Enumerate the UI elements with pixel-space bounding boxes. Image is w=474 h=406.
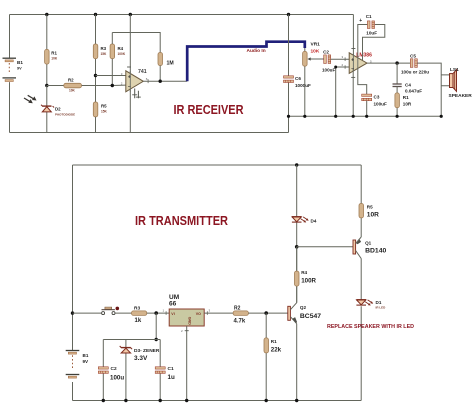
svg-text:1u: 1u (168, 374, 175, 381)
svg-text:100R: 100R (301, 278, 316, 285)
wire bottom rail (transmitter) (73, 400, 362, 402)
wire top rail (10, 14, 354, 16)
wire LM386 pin 4 to ground (351, 69, 355, 116)
node R2/R1 junction (264, 311, 268, 315)
node R4/R2 junction (111, 84, 114, 87)
node supply rail left (71, 311, 74, 314)
resistor R4 100R (295, 270, 317, 286)
battery B1 (receiver) (3, 58, 24, 81)
wire ground rail right (289, 116, 442, 132)
wire R1 column (transmitter) (265, 313, 267, 400)
resistor R1 10R (receiver) (395, 87, 412, 117)
svg-text:PHOTODIODE: PHOTODIODE (55, 113, 75, 117)
wire UM66 GND pin (181, 326, 189, 401)
svg-text:REPLACE SPEAKER WITH IR LED: REPLACE SPEAKER WITH IR LED (327, 324, 414, 330)
svg-text:R2: R2 (234, 305, 241, 311)
svg-text:IR RECEIVER: IR RECEIVER (174, 103, 244, 117)
svg-text:R2: R2 (68, 77, 74, 82)
svg-text:IR LED: IR LED (376, 306, 387, 310)
capacitor C6 1000uF (284, 76, 312, 88)
wire left edge top (9, 15, 11, 58)
node output C4 branch (395, 61, 398, 64)
svg-text:R1: R1 (403, 95, 409, 100)
svg-text:1k: 1k (135, 318, 142, 324)
wire LM386 output (367, 62, 410, 64)
node R3/R5 junction (94, 74, 97, 77)
wire LM386 pin2 to ground (336, 63, 350, 116)
wire left edge (transmitter) (72, 165, 74, 401)
svg-text:1M: 1M (167, 61, 174, 67)
battery B1 9V (transmitter) (66, 351, 89, 379)
potentiometer VR1 10K (303, 42, 324, 117)
node R1 ground (396, 115, 399, 118)
resistor R2 4.7k (233, 305, 248, 324)
svg-text:VI: VI (171, 312, 174, 316)
wire Q2 collector column (296, 247, 298, 303)
wire C6 column (288, 15, 290, 117)
wire 741 supply column (127, 15, 131, 133)
wire C1 column (transmitter) (159, 340, 161, 401)
svg-text:100u: 100u (110, 374, 124, 381)
svg-text:C2: C2 (323, 50, 329, 55)
svg-text:B1: B1 (83, 353, 89, 358)
node zener ground (124, 399, 127, 402)
resistor R1 22k (transmitter) (264, 338, 282, 353)
svg-text:LS1: LS1 (450, 67, 459, 73)
IC UM66 (169, 294, 204, 326)
svg-text:R5: R5 (101, 104, 107, 109)
svg-text:10K: 10K (51, 56, 58, 60)
svg-text:Audio In: Audio In (247, 48, 266, 54)
svg-text:+: + (351, 57, 354, 63)
node top rail R3 (94, 13, 97, 16)
svg-text:R1: R1 (51, 51, 57, 56)
resistor R2 10K (64, 77, 82, 92)
wire 741 output (143, 80, 187, 82)
wire LM386 pin 7 to C3 (358, 68, 367, 94)
resistor R5 10R (359, 204, 379, 219)
wire UM66 out to R2 (204, 309, 233, 315)
node C1 ground (159, 399, 162, 402)
svg-text:100u or 220u: 100u or 220u (401, 70, 429, 75)
node R1 ground (transmitter) (265, 399, 268, 402)
svg-text:D4: D4 (311, 218, 317, 223)
wire audio link (navy) (187, 42, 305, 81)
node speaker ground (440, 115, 443, 118)
resistor R4 100K (110, 44, 126, 59)
wire switch to R3 (115, 312, 131, 314)
wire ground rail left (10, 132, 289, 134)
svg-text:R3: R3 (134, 305, 140, 311)
svg-text:VO: VO (196, 312, 201, 316)
wire junction down to 3.3V rail (155, 313, 157, 339)
capacitor C4 0.047uF (393, 83, 423, 94)
svg-text:D1: D1 (376, 300, 382, 305)
svg-text:R3: R3 (101, 46, 107, 51)
node C3 ground (365, 115, 368, 118)
label REPLACE SPEAKER WITH IR LED (327, 324, 414, 330)
wire 3.3V rail (103, 339, 160, 341)
svg-text:C5: C5 (410, 53, 416, 58)
svg-text:22k: 22k (271, 346, 282, 353)
svg-text:+: + (128, 75, 131, 81)
wire LM386 V+ (pin 6) (351, 15, 355, 56)
svg-text:9V: 9V (83, 359, 90, 364)
wire R2 net (inverting input) (47, 84, 126, 86)
svg-text:4.7k: 4.7k (234, 319, 246, 325)
svg-text:100uF: 100uF (322, 68, 335, 73)
wire R5 to ground (95, 117, 97, 133)
wire Q2 emitter to ground (296, 324, 298, 401)
node Q2 emitter ground (295, 399, 298, 402)
resistor R5 15K (93, 102, 107, 117)
node D4 top rail (295, 163, 298, 166)
wire C5 to speaker (417, 63, 441, 116)
wire LM386 pin 8 to C1 (363, 25, 385, 61)
op-amp U1 741 (121, 69, 148, 98)
wire D2 column (46, 86, 48, 133)
svg-text:100K: 100K (118, 52, 126, 56)
wire R3 column (95, 15, 97, 103)
svg-text:D2: D2 (55, 107, 61, 112)
speaker LS1 (441, 67, 472, 99)
resistor R1 10K (45, 49, 58, 64)
svg-text:10K: 10K (69, 89, 76, 93)
svg-text:10R: 10R (367, 212, 379, 219)
svg-text:10K: 10K (311, 49, 320, 55)
wire LM386 pin 1 to C1 (358, 25, 368, 58)
wire feedback top (112, 33, 160, 53)
node R3/zener junction (154, 311, 158, 315)
svg-text:15K: 15K (101, 109, 108, 113)
capacitor C2 100u (transmitter) (98, 366, 124, 381)
wire R1 column (46, 15, 48, 86)
wire supply to switch (73, 312, 102, 314)
svg-text:GND: GND (187, 317, 191, 325)
svg-text:R4: R4 (118, 46, 124, 51)
svg-text:Q2: Q2 (300, 305, 307, 310)
svg-text:10R: 10R (403, 102, 412, 107)
zener diode D3 3.3V (120, 346, 160, 362)
node pin2 ground (334, 115, 337, 118)
wire top rail (transmitter) (73, 164, 362, 166)
wire D4 column (296, 165, 298, 247)
label IR TRANSMITTER (135, 214, 228, 228)
wire C3 to ground (366, 101, 368, 117)
wire C2 to LM386 input (331, 55, 350, 61)
wire R4 column (296, 247, 298, 303)
node 3.3V rail (155, 338, 158, 341)
svg-text:−: − (128, 84, 131, 90)
photodiode D2 (24, 95, 75, 116)
wire C2 column (transmitter) (102, 340, 104, 401)
svg-text:Q1: Q1 (365, 240, 372, 245)
wire zener column (125, 340, 127, 401)
node VR1 ground (303, 115, 306, 118)
node Q1 base junction (295, 245, 299, 249)
svg-text:C1: C1 (366, 14, 372, 19)
node pin4 ground (352, 115, 355, 118)
svg-text:C1: C1 (168, 366, 174, 372)
svg-text:9V: 9V (17, 67, 22, 71)
capacitor C1 1u (transmitter) (155, 366, 175, 381)
svg-text:R4: R4 (301, 270, 307, 275)
svg-text:R1: R1 (271, 339, 277, 344)
wire Q1 base (297, 246, 353, 248)
svg-text:C4: C4 (405, 83, 411, 88)
wire 1M to output (159, 66, 161, 82)
svg-text:0.047uF: 0.047uF (405, 89, 422, 94)
node output/1M junction (159, 80, 162, 83)
node top rail R1 (45, 13, 48, 16)
svg-text:B1: B1 (17, 60, 23, 65)
svg-text:BC547: BC547 (300, 313, 321, 320)
svg-text:66: 66 (169, 301, 177, 308)
capacitor C5 100u or 220u (401, 53, 429, 74)
node top rail 741 supply (129, 13, 132, 16)
svg-text:1000uF: 1000uF (295, 83, 311, 88)
svg-text:LM386: LM386 (356, 52, 372, 58)
svg-text:D3- ZENER: D3- ZENER (134, 348, 160, 354)
wire to non-inverting input (96, 75, 126, 77)
diode D1 IR LED (356, 300, 386, 310)
node top rail C6 (287, 13, 290, 16)
svg-text:C6: C6 (295, 76, 301, 81)
svg-text:C2: C2 (111, 366, 117, 372)
svg-text:C3: C3 (374, 95, 380, 100)
svg-text:741: 741 (138, 69, 147, 75)
capacitor C2 100uF (322, 50, 335, 73)
resistor R3 15K (93, 44, 107, 59)
svg-text:3.3V: 3.3V (134, 355, 148, 362)
wire R3 to UM66 (147, 309, 169, 315)
wire R4 branch (111, 33, 113, 86)
svg-text:10uF: 10uF (366, 30, 377, 35)
svg-text:100uF: 100uF (374, 101, 387, 106)
capacitor C1 10uF (359, 14, 377, 35)
svg-text:+: + (359, 18, 362, 24)
diode D4 (292, 217, 317, 224)
svg-text:SPEAKER: SPEAKER (449, 93, 473, 99)
op-amp U2 LM386 (349, 52, 372, 73)
capacitor C3 100uF (362, 94, 387, 106)
node R1/R2 junction (45, 84, 48, 87)
svg-text:VR1: VR1 (311, 42, 321, 48)
label IR RECEIVER (174, 103, 244, 117)
svg-text:BD140: BD140 (365, 247, 386, 254)
node pin2 corner (334, 66, 337, 69)
wire R2 to Q2 base (248, 312, 287, 314)
resistor 1M (158, 53, 174, 67)
svg-text:R5: R5 (367, 204, 373, 209)
svg-text:IR TRANSMITTER: IR TRANSMITTER (135, 214, 228, 228)
switch SW1 pushbutton (102, 307, 120, 315)
wire C4 branch (396, 63, 398, 83)
transistor Q2 BC547 (288, 303, 321, 324)
node UM66 ground (185, 399, 188, 402)
transistor Q1 BD140 (353, 237, 386, 259)
svg-text:15K: 15K (101, 52, 108, 56)
wire right edge (transmitter) (360, 165, 362, 401)
node ground step (287, 115, 290, 118)
node C2 ground (102, 399, 105, 402)
resistor R3 1k (132, 305, 147, 324)
wire left edge bottom (9, 82, 11, 132)
